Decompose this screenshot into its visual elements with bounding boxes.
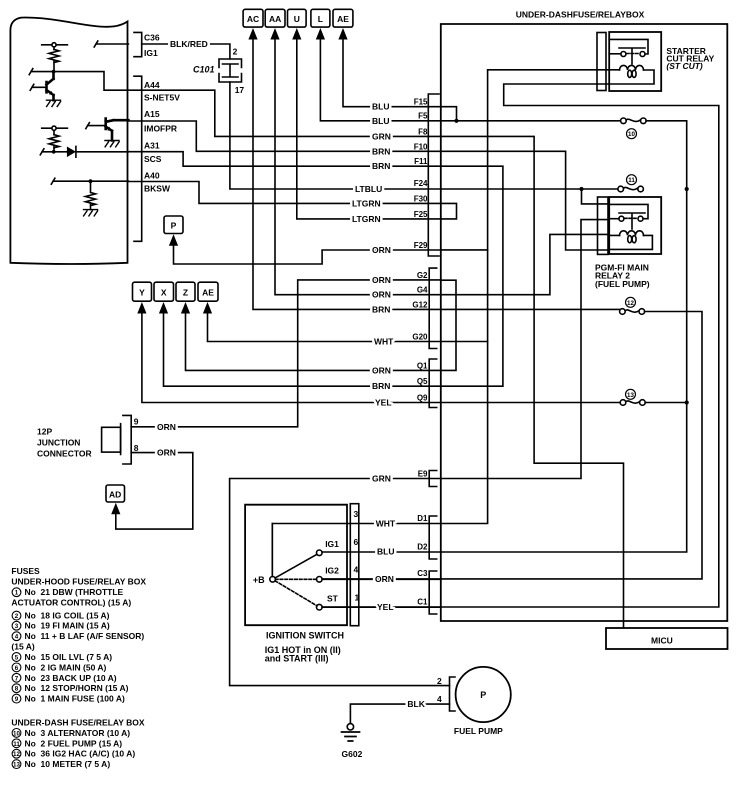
svg-text:13: 13 bbox=[627, 392, 634, 399]
svg-text:2: 2 bbox=[437, 676, 442, 686]
dashed +B to IG2 bbox=[275, 578, 316, 580]
svg-text:WHT: WHT bbox=[376, 519, 396, 529]
svg-text:CONNECTOR: CONNECTOR bbox=[37, 449, 92, 459]
svg-text:LTGRN: LTGRN bbox=[352, 198, 381, 208]
MICU box bbox=[606, 628, 728, 649]
wire Z to Q1 (ORN) bbox=[186, 314, 441, 371]
svg-text:F24: F24 bbox=[414, 179, 428, 188]
wire G2 jog to G4 and Q1 link bbox=[441, 280, 456, 370]
svg-text:(FUEL PUMP): (FUEL PUMP) bbox=[595, 279, 650, 289]
connector box AD bbox=[106, 485, 125, 502]
wire 12P pin9 ORN to G2 bbox=[131, 280, 441, 427]
connector box AC bbox=[243, 9, 263, 27]
svg-text:No 1 MAIN FUSE (100 A): No 1 MAIN FUSE (100 A) bbox=[25, 694, 125, 704]
wire P to F29 (ORN) bbox=[174, 246, 488, 265]
arrow into Y bbox=[137, 302, 146, 314]
wire BKSW internal bbox=[51, 178, 128, 184]
arrow into AC bbox=[248, 28, 257, 40]
connector bracket A44-A40 bbox=[134, 76, 142, 241]
svg-text:BLU: BLU bbox=[372, 116, 389, 126]
node junction BKSW/R bbox=[89, 179, 93, 183]
connector box U bbox=[288, 9, 307, 27]
svg-text:+B: +B bbox=[253, 575, 265, 585]
svg-text:Q1: Q1 bbox=[417, 361, 428, 370]
wire L to F5 (BLU) bbox=[320, 40, 440, 121]
svg-text:FUSES: FUSES bbox=[11, 566, 40, 576]
svg-text:BRN: BRN bbox=[372, 161, 390, 171]
fuel pump bracket bbox=[450, 677, 456, 711]
svg-text:C101: C101 bbox=[193, 65, 215, 75]
svg-text:17: 17 bbox=[235, 85, 245, 95]
arrow into P bbox=[169, 234, 178, 246]
svg-text:ORN: ORN bbox=[372, 245, 391, 255]
svg-text:(ST CUT): (ST CUT) bbox=[666, 61, 703, 71]
ignition switch contacts bbox=[270, 577, 276, 583]
svg-text:BRN: BRN bbox=[372, 146, 390, 156]
svg-text:L: L bbox=[318, 14, 323, 24]
svg-text:13: 13 bbox=[13, 762, 20, 769]
wire relay1 lower / bus V3 to C1 (YEL ignition ST) bbox=[322, 84, 719, 607]
svg-text:1: 1 bbox=[355, 593, 360, 603]
starter cut relay contact bbox=[609, 39, 648, 64]
svg-text:4: 4 bbox=[15, 634, 19, 641]
svg-text:No 18 IG COIL (15 A): No 18 IG COIL (15 A) bbox=[25, 611, 110, 621]
arrow into AE (lower) bbox=[203, 302, 212, 314]
svg-text:F30: F30 bbox=[414, 194, 428, 203]
svg-text:No 21 DBW (THROTTLE: No 21 DBW (THROTTLE bbox=[25, 587, 124, 597]
PGM-FI relay 2 contact bbox=[609, 204, 648, 229]
bracket F15-F29 bbox=[428, 94, 439, 256]
wire relay2 pinB to E9 (GRN) to fuel pump bbox=[230, 220, 610, 686]
svg-text:8: 8 bbox=[15, 686, 19, 693]
svg-text:1: 1 bbox=[15, 590, 19, 597]
resistor R (pull-up, upper) bbox=[42, 45, 68, 70]
svg-text:6: 6 bbox=[15, 665, 19, 672]
svg-text:AE: AE bbox=[337, 14, 349, 24]
wire F10 to relay2 coil return bbox=[441, 151, 609, 250]
PGM-FI main relay 2 bracket bbox=[598, 197, 609, 254]
wire AE (lower) to G20 (WHT) bbox=[208, 314, 488, 342]
ignition switch +B riser bbox=[271, 524, 273, 577]
node junction R/diode bbox=[52, 150, 56, 154]
svg-text:A44: A44 bbox=[144, 80, 160, 90]
wire relay2 pinA from fuse11 node bbox=[582, 189, 610, 204]
svg-text:IMOFPR: IMOFPR bbox=[144, 124, 177, 134]
svg-text:No 36 IG2 HAC (A/C) (10 A): No 36 IG2 HAC (A/C) (10 A) bbox=[25, 749, 136, 759]
node F5/F15 bbox=[454, 119, 458, 123]
svg-text:JUNCTION: JUNCTION bbox=[37, 438, 80, 448]
svg-text:F11: F11 bbox=[414, 157, 428, 166]
under-dash fuse/relay box outline bbox=[441, 24, 728, 621]
svg-text:8: 8 bbox=[134, 443, 139, 453]
svg-text:Y: Y bbox=[139, 287, 145, 297]
svg-text:ORN: ORN bbox=[372, 365, 391, 375]
arrow into U bbox=[292, 28, 301, 40]
connector box AE (lower) bbox=[198, 282, 218, 301]
starter cut relay box bbox=[609, 32, 661, 91]
wire X to Q5 (BRN) + F11 link bbox=[164, 166, 503, 386]
svg-text:No 11 + B LAF (A/F SENSOR): No 11 + B LAF (A/F SENSOR) bbox=[25, 631, 145, 641]
svg-text:BKSW: BKSW bbox=[144, 184, 171, 194]
svg-text:IGNITION SWITCH: IGNITION SWITCH bbox=[266, 630, 344, 640]
wire AA to G4 (ORN) + relay2 coil pin bbox=[275, 40, 609, 295]
svg-text:9: 9 bbox=[134, 416, 139, 426]
connector box X bbox=[154, 282, 174, 301]
arrow into L bbox=[316, 28, 325, 40]
wire C36 internal bbox=[94, 41, 128, 47]
svg-text:C3: C3 bbox=[417, 569, 428, 578]
fuse 13 symbol bbox=[620, 400, 626, 406]
svg-text:E9: E9 bbox=[418, 470, 428, 479]
svg-text:12: 12 bbox=[627, 300, 634, 307]
fuse number 13 bbox=[626, 389, 636, 399]
svg-text:No 2 FUEL PUMP (15 A): No 2 FUEL PUMP (15 A) bbox=[25, 738, 123, 748]
wire SCS internal + diode D bbox=[40, 146, 128, 157]
svg-text:YEL: YEL bbox=[377, 602, 394, 612]
svg-text:AE: AE bbox=[202, 287, 214, 297]
connector box AE bbox=[333, 9, 353, 27]
ignition switch bracket bbox=[350, 504, 359, 626]
svg-text:No 10 METER (7 5 A): No 10 METER (7 5 A) bbox=[25, 759, 111, 769]
node fuse11 left / relay2 pin bbox=[579, 187, 583, 191]
ignition switch box bbox=[245, 505, 347, 626]
ECM box (torn-edge outline) bbox=[10, 18, 127, 264]
svg-text:3: 3 bbox=[354, 509, 359, 519]
PGM-FI relay 2 coil bbox=[620, 231, 644, 236]
svg-text:10: 10 bbox=[13, 730, 20, 737]
svg-text:G602: G602 bbox=[342, 749, 363, 759]
svg-text:4: 4 bbox=[437, 694, 442, 704]
svg-text:No 12 STOP/HORN (15 A): No 12 STOP/HORN (15 A) bbox=[25, 683, 129, 693]
svg-text:IG2: IG2 bbox=[325, 566, 339, 576]
ground (BKSW resistor) bbox=[84, 210, 98, 216]
svg-text:(15 A): (15 A) bbox=[11, 642, 34, 652]
svg-text:9: 9 bbox=[15, 696, 19, 703]
svg-text:BRN: BRN bbox=[372, 381, 390, 391]
wire IG1 to pin6 bbox=[322, 551, 441, 553]
svg-text:UNDER-DASHFUSE/RELAYBOX: UNDER-DASHFUSE/RELAYBOX bbox=[516, 10, 645, 20]
wire F8 to MICU bbox=[441, 136, 624, 628]
bracket D1-D2 bbox=[429, 516, 437, 559]
svg-text:10: 10 bbox=[628, 131, 635, 138]
svg-text:6: 6 bbox=[354, 537, 359, 547]
wire F24/fuse 11 row bbox=[441, 188, 618, 190]
svg-text:D2: D2 bbox=[417, 543, 428, 552]
svg-text:ORN: ORN bbox=[157, 422, 176, 432]
fuse number 12 bbox=[626, 297, 636, 307]
wire fuse13 output to node bbox=[645, 402, 687, 404]
svg-text:5: 5 bbox=[15, 655, 19, 662]
svg-text:12: 12 bbox=[13, 751, 20, 758]
svg-text:AD: AD bbox=[109, 490, 121, 500]
svg-text:ORN: ORN bbox=[157, 448, 176, 458]
svg-text:No 3 ALTERNATOR (10 A): No 3 ALTERNATOR (10 A) bbox=[25, 728, 131, 738]
svg-text:UNDER-DASH FUSE/RELAY BOX: UNDER-DASH FUSE/RELAY BOX bbox=[11, 718, 145, 728]
wire fuse12 output to C3 (ORN ignition IG2) bbox=[322, 312, 702, 579]
svg-text:BLU: BLU bbox=[377, 547, 394, 557]
wire internal A44 feed bbox=[29, 69, 128, 91]
svg-text:G2: G2 bbox=[417, 271, 428, 280]
connector C101 bbox=[219, 59, 242, 82]
svg-text:F5: F5 bbox=[418, 111, 428, 120]
svg-text:ORN: ORN bbox=[375, 574, 394, 584]
svg-text:IG1: IG1 bbox=[144, 48, 158, 58]
svg-text:X: X bbox=[161, 287, 167, 297]
svg-text:3: 3 bbox=[15, 623, 19, 630]
transistor Q2 (IMOFPR driver) bbox=[86, 119, 106, 129]
wire relay1 feed upper / G20-D1 (WHT) net bbox=[272, 70, 619, 577]
connector box P bbox=[164, 216, 183, 234]
wire fuel pump pin4 BLK to G602 bbox=[350, 704, 449, 723]
svg-text:YEL: YEL bbox=[375, 398, 392, 408]
wire BLK/RED C36-IG1 to C101 pin2 bbox=[142, 44, 230, 59]
wire Y to Q9 (YEL) + fuse 13 bbox=[142, 314, 620, 403]
arrow into X bbox=[159, 302, 168, 314]
svg-text:7: 7 bbox=[15, 675, 19, 682]
fuse 11 symbol bbox=[618, 186, 624, 192]
svg-text:C36: C36 bbox=[144, 33, 160, 43]
wire A15 IMOFPR to F10 (BRN) bbox=[128, 121, 440, 151]
svg-text:No 23 BACK UP (10 A): No 23 BACK UP (10 A) bbox=[25, 673, 117, 683]
wire fuse10 output down to fuse11 node bbox=[646, 121, 687, 189]
svg-text:No 19 FI MAIN (15 A): No 19 FI MAIN (15 A) bbox=[25, 621, 110, 631]
fuse number 11 bbox=[627, 175, 637, 185]
svg-text:Q9: Q9 bbox=[417, 394, 428, 403]
connector box Z bbox=[176, 282, 195, 301]
svg-text:AC: AC bbox=[247, 14, 259, 24]
arrow into AE bbox=[338, 28, 347, 40]
wire C101 pin17 to F24 (LTBLU) bbox=[230, 82, 441, 189]
node fuse11 right bbox=[685, 187, 689, 191]
svg-text:2: 2 bbox=[15, 613, 19, 620]
bracket G2-G20 bbox=[429, 268, 437, 348]
fuse legend bbox=[11, 566, 146, 769]
node fuse13/V1 bbox=[685, 400, 689, 404]
wire 12P pin8 ORN to AD bbox=[116, 453, 193, 529]
wire A44 S-NET5V to F8 (GRN) bbox=[128, 90, 440, 136]
svg-text:C1: C1 bbox=[417, 598, 428, 607]
svg-text:MICU: MICU bbox=[651, 635, 673, 645]
svg-text:11: 11 bbox=[628, 177, 635, 184]
svg-text:ST: ST bbox=[327, 594, 339, 604]
svg-text:11: 11 bbox=[13, 741, 20, 748]
svg-text:WHT: WHT bbox=[374, 337, 394, 347]
svg-text:and START (III): and START (III) bbox=[265, 654, 329, 664]
svg-text:A40: A40 bbox=[144, 171, 160, 181]
svg-text:BLU: BLU bbox=[372, 102, 389, 112]
wire V1 bus fuse10/11 down to D2 (BLU ignition IG1) bbox=[441, 189, 687, 552]
wire A31 SCS to F11 (BRN) bbox=[128, 152, 440, 167]
wire IG2 to pin4 stub bbox=[322, 578, 441, 580]
12P junction connector symbol bbox=[102, 427, 121, 452]
wire AE to F15 (BLU) bbox=[343, 40, 441, 107]
wire F5 row to fuse 10 bbox=[441, 120, 621, 122]
fuse 10 symbol bbox=[621, 118, 627, 124]
svg-text:FUEL PUMP: FUEL PUMP bbox=[454, 726, 503, 736]
wire F15 stub to F5 node bbox=[441, 107, 457, 121]
svg-text:LTBLU: LTBLU bbox=[355, 184, 382, 194]
svg-text:G12: G12 bbox=[412, 300, 428, 309]
svg-text:4: 4 bbox=[354, 565, 359, 575]
svg-text:P: P bbox=[480, 690, 486, 700]
svg-text:ACTUATOR CONTROL) (15 A): ACTUATOR CONTROL) (15 A) bbox=[11, 598, 131, 608]
ground G602 bbox=[347, 724, 353, 730]
svg-text:ORN: ORN bbox=[372, 275, 391, 285]
svg-text:P: P bbox=[171, 220, 177, 230]
fuse 12 symbol bbox=[620, 309, 626, 315]
svg-text:LTGRN: LTGRN bbox=[352, 214, 381, 224]
fuel pump motor circle bbox=[456, 667, 511, 722]
wire AC to G12 (BRN) + fuse 12 feed bbox=[253, 40, 619, 310]
ground (Q2 emitter) bbox=[105, 141, 119, 147]
arrow into AD bbox=[111, 503, 120, 515]
svg-text:D1: D1 bbox=[417, 514, 428, 523]
arrow into AA bbox=[270, 28, 279, 40]
svg-text:UNDER-HOOD FUSE/RELAY BOX: UNDER-HOOD FUSE/RELAY BOX bbox=[11, 577, 146, 587]
fuse number 10 bbox=[627, 129, 637, 139]
bracket C3-C1 bbox=[429, 571, 437, 614]
svg-text:F25: F25 bbox=[414, 210, 428, 219]
svg-text:No 2 IG MAIN (50 A): No 2 IG MAIN (50 A) bbox=[25, 662, 107, 672]
svg-text:F29: F29 bbox=[414, 241, 428, 250]
connector box L bbox=[311, 9, 330, 27]
svg-text:Q5: Q5 bbox=[417, 377, 428, 386]
resistor R (BKSW pull-down) bbox=[86, 181, 96, 209]
bracket Q1-Q9 bbox=[429, 359, 437, 408]
node junction R/T1 collector bbox=[52, 70, 56, 74]
svg-text:ORN: ORN bbox=[372, 290, 391, 300]
svg-text:GRN: GRN bbox=[372, 131, 391, 141]
PGM-FI main relay 2 box bbox=[609, 197, 661, 254]
svg-text:G4: G4 bbox=[417, 286, 428, 295]
svg-text:G20: G20 bbox=[412, 333, 428, 342]
svg-text:BLK/RED: BLK/RED bbox=[170, 39, 208, 49]
wire ST to pin1 stub bbox=[322, 606, 441, 608]
svg-text:GRN: GRN bbox=[372, 474, 391, 484]
svg-text:BLK: BLK bbox=[407, 699, 425, 709]
svg-text:No 15 OIL LVL (7 5 A): No 15 OIL LVL (7 5 A) bbox=[25, 652, 113, 662]
circled fuse numbers in diagram bbox=[626, 129, 637, 400]
switch blade +B to IG1 bbox=[275, 554, 317, 578]
svg-text:A31: A31 bbox=[144, 141, 160, 151]
starter cut relay bracket bbox=[597, 33, 606, 91]
svg-text:BRN: BRN bbox=[372, 304, 390, 314]
svg-text:Z: Z bbox=[183, 287, 188, 297]
svg-text:S-NET5V: S-NET5V bbox=[144, 93, 180, 103]
svg-text:12P: 12P bbox=[37, 427, 52, 437]
ground (Q1 emitter) bbox=[47, 100, 61, 106]
bracket E9 bbox=[429, 471, 437, 487]
starter cut relay coil bbox=[620, 65, 644, 70]
svg-text:IG1: IG1 bbox=[325, 539, 339, 549]
svg-text:2: 2 bbox=[233, 47, 238, 57]
wire U to F25 (LTGRN) bbox=[297, 40, 441, 219]
wire F30/F25 loop stub bbox=[441, 203, 457, 219]
svg-text:A15: A15 bbox=[144, 109, 160, 119]
svg-text:SCS: SCS bbox=[144, 154, 162, 164]
svg-text:F15: F15 bbox=[414, 97, 428, 106]
connector bracket C36 bbox=[134, 32, 142, 56]
transistor Q1 (internal) bbox=[30, 82, 46, 92]
svg-text:AA: AA bbox=[269, 14, 281, 24]
arrow into Z bbox=[181, 302, 190, 314]
connector box AA bbox=[265, 9, 285, 27]
svg-text:F10: F10 bbox=[414, 142, 428, 151]
dashed +B to ST bbox=[275, 581, 317, 606]
connector box Y bbox=[133, 282, 152, 301]
svg-text:F8: F8 bbox=[418, 128, 428, 137]
arrowheads bbox=[111, 28, 347, 514]
wire A40 BKSW to F30 (LTGRN) bbox=[128, 182, 440, 204]
svg-text:U: U bbox=[294, 14, 300, 24]
resistor R (pull-up, lower) bbox=[42, 128, 68, 150]
